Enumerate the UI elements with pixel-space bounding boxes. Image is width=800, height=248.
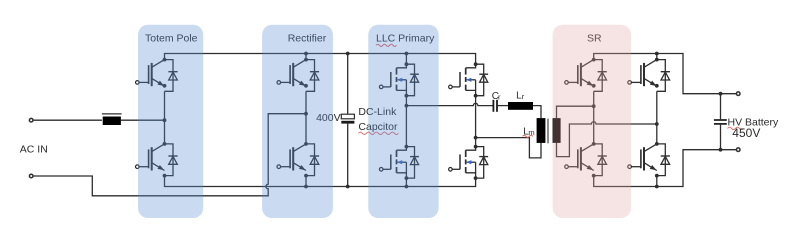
terminal: battery positive (736, 92, 740, 96)
transistor Q7 LLC right high-side MOSFET (449, 62, 489, 97)
wire: totem-pole leg midsection (164, 91, 166, 144)
wire: DC-link capacitor bottom stub (347, 124, 349, 187)
junction: totem-pole midpoint node (163, 118, 167, 122)
wire: LLC left leg top stub (405, 54, 407, 65)
wire: DC top rail (165, 54, 476, 65)
junction: Q11 emitter node (655, 84, 659, 88)
junction: Q10 emitter node (592, 174, 596, 178)
junction: SR right bottom rail node (655, 185, 659, 189)
capacitor C DC-link (electrolytic) (341, 114, 354, 123)
transistor Q3 rectifier high-side IGBT (277, 60, 319, 92)
junction: DC-link bottom rail node (346, 185, 350, 189)
svg-text:450V: 450V (732, 126, 760, 140)
wire: transformer secondary bottom to SR right midpoint (557, 122, 657, 157)
wire: LLC right leg midsection (475, 94, 477, 147)
wire: AC live input to boost inductor (34, 119, 102, 121)
wire: rectifier leg top stub (305, 54, 307, 60)
svg-text:r: r (498, 92, 501, 101)
transformer T1 secondary winding (553, 118, 561, 143)
terminal: AC input neutral (29, 174, 33, 178)
junction: Q9 emitter node (592, 84, 596, 88)
junction: Q12 emitter node (655, 174, 659, 178)
block highlight: Totem Pole (138, 25, 203, 218)
junction: battery positive node (719, 92, 723, 96)
transistor Q6 LLC left low-side MOSFET (379, 145, 419, 180)
transistor Q1 totem-pole high-side IGBT (136, 60, 178, 92)
junction: rectifier bottom rail node (304, 185, 308, 189)
junction: DC-link top rail node (346, 52, 350, 56)
junction: rectifier midpoint node (304, 112, 308, 116)
inductor Lr resonant (508, 102, 533, 110)
junction: Q4 collector node (304, 142, 308, 146)
wire: SR right leg top stub (656, 54, 658, 60)
wire: LLC left midpoint to resonant capacitor (hops over right leg) (406, 103, 492, 105)
junction: LLC left bottom rail node (405, 185, 409, 189)
junction: SR left midpoint node (592, 104, 596, 108)
junction: SR right top rail node (655, 52, 659, 56)
wire: resonant capacitor to resonant inductor (498, 105, 508, 107)
wire: DC bottom rail (165, 176, 476, 187)
wire: DC-link capacitor top stub (347, 54, 349, 115)
junction: Q1 emitter node (163, 84, 167, 88)
wire: LLC right midpoint to transformer primary bottom (476, 138, 541, 158)
junction: Q9 collector node (592, 58, 596, 62)
spellcheck squiggle under LLC (376, 44, 396, 46)
transistor Q12 SR right low-side IGBT (628, 144, 670, 176)
transistor Q4 rectifier low-side IGBT (277, 144, 319, 176)
wire: AC neutral input to rectifier midpoint (34, 114, 306, 196)
junction: battery negative node (719, 148, 723, 152)
transistor Q5 LLC left high-side MOSFET (379, 62, 419, 97)
wire: transformer secondary top to SR left midpoint (557, 106, 594, 118)
wire: SR top rail to battery positive (594, 54, 737, 94)
spellcheck squiggle under HV (728, 127, 744, 129)
transistor Q11 SR right high-side IGBT (628, 60, 670, 92)
capacitor Cr resonant (493, 100, 497, 112)
wire: boost inductor to totem-pole midpoint (121, 119, 165, 121)
wire: output capacitor top stub (720, 94, 722, 120)
junction: Q10 collector node (592, 142, 596, 146)
wire: rectifier leg bottom stub (305, 176, 307, 187)
junction: Q3 collector node (304, 58, 308, 62)
junction: rectifier top rail node (304, 52, 308, 56)
junction: Q1 collector node (163, 58, 167, 62)
transformer T1 core (547, 119, 549, 144)
inductor L boost (PFC choke) (102, 114, 122, 125)
junction: Q4 emitter node (304, 174, 308, 178)
terminal: AC input live (29, 118, 33, 122)
wire: LLC left leg bottom stub (405, 176, 407, 186)
junction: LLC left top rail node (405, 52, 409, 56)
junction: LLC right midpoint node (to primary bottom) (474, 136, 478, 140)
wire: SR bottom rail to battery negative (594, 150, 737, 187)
wire: resonant inductor to transformer primary top (533, 106, 541, 119)
junction: Q2 emitter node (163, 174, 167, 178)
svg-text:r: r (522, 92, 525, 101)
spellcheck squiggle under Capcitor (358, 132, 398, 134)
wire: SR right leg midsection (656, 91, 658, 144)
block highlight: Rectifier (262, 25, 333, 218)
wire: LLC left leg midsection (405, 94, 407, 147)
spellcheck squiggle under Lm (523, 135, 533, 137)
transistor Q8 LLC right low-side MOSFET (449, 145, 489, 180)
wire: SR left leg midsection (593, 91, 595, 144)
junction: Q11 collector node (655, 58, 659, 62)
block highlight: SR (553, 25, 631, 218)
wire: rectifier leg midsection (305, 91, 307, 144)
transistor Q10 SR left low-side IGBT (565, 144, 607, 176)
capacitor C output filter (714, 120, 727, 124)
block highlight: LLC Primary (368, 25, 438, 218)
wire: output capacitor bottom stub (720, 125, 722, 150)
junction: SR right midpoint node (655, 122, 659, 126)
terminal: battery negative (736, 148, 740, 152)
transistor Q2 totem-pole low-side IGBT (136, 144, 178, 176)
transistor Q9 SR left high-side IGBT (565, 60, 607, 92)
svg-text:AC IN: AC IN (20, 143, 48, 155)
transformer T1 primary winding (Lm) (537, 118, 546, 143)
junction: Q12 collector node (655, 142, 659, 146)
wire: SR right leg bottom stub (656, 176, 658, 187)
junction: Q3 emitter node (304, 84, 308, 88)
junction: LLC left midpoint node (to Cr) (405, 104, 409, 108)
junction: Q2 collector node (163, 142, 167, 146)
